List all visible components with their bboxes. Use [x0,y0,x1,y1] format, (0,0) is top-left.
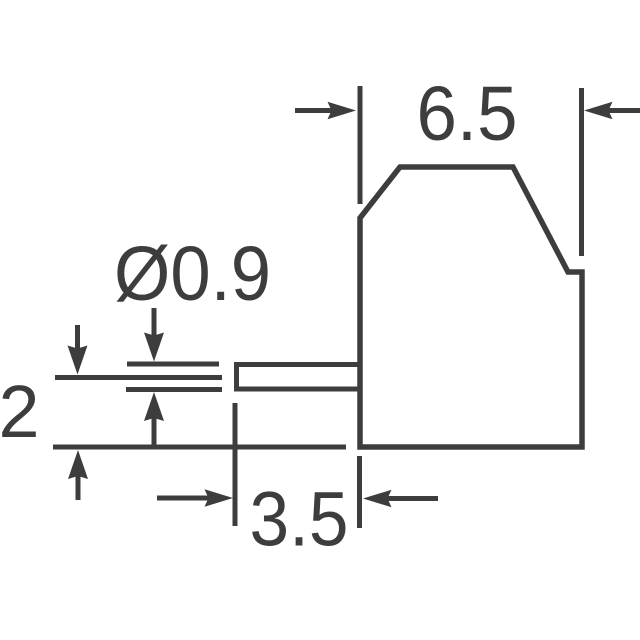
lead pin [237,365,362,390]
dim 0.9 top arrowhead [144,333,164,362]
dim 2 bottom arrowhead [68,450,88,479]
dim 3.5 left extension line [233,403,238,526]
dim 2 bottom arrow stem [76,473,81,500]
dim 2 top arrow stem [75,325,80,351]
dim 3.5 right arrow stem [385,496,438,501]
dim 0.9 bottom arrow stem [152,414,157,445]
dim 3.5 left arrow stem [157,496,212,501]
dim 3.5 left arrowhead [205,489,234,507]
dim 0.9 bottom arrowhead [144,392,164,421]
dim 6.5 right arrow stem [606,108,640,113]
dim 2 top arrowhead [68,346,88,375]
lead top extension line [127,362,219,367]
dim 6.5 right arrowhead [584,102,613,120]
dim 6.5 left extension line [358,86,363,204]
dim 6.5 left arrow stem [295,108,334,113]
lead bottom extension line [126,387,222,392]
dim 6.5 right extension line [579,88,584,256]
body outline [360,167,582,447]
svg-text:Ø0.9: Ø0.9 [114,231,271,317]
dim 3.5 right arrowhead [363,490,392,508]
dim 6.5 left arrowhead [328,102,357,120]
svg-text:6.5: 6.5 [417,71,518,157]
dim 2 bottom line [53,445,346,450]
svg-text:3.5: 3.5 [250,477,349,563]
centerline dim 2 top line [55,375,222,380]
svg-text:2: 2 [0,370,40,453]
dim 0.9 top arrow stem [152,308,157,338]
dim 3.5 right extension line [357,456,362,528]
